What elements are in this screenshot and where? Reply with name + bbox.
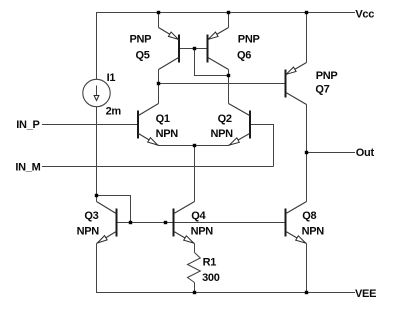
svg-text:300: 300	[202, 272, 220, 284]
svg-text:IN_M: IN_M	[15, 161, 40, 173]
svg-text:PNP: PNP	[316, 70, 338, 82]
wire Q8 emitter to VEE	[306, 244, 308, 293]
svg-text:VEE: VEE	[355, 288, 376, 300]
svg-text:Q6: Q6	[237, 50, 251, 62]
wire Q7 emitter to Vcc	[306, 13, 308, 63]
svg-text:I1: I1	[107, 72, 116, 84]
wire Q8 collector to Out	[306, 153, 308, 202]
wire I1 bottom to Q3 collector node	[96, 107, 98, 196]
resistor R1	[188, 253, 201, 283]
wire Q7 collector to Out	[306, 105, 308, 153]
wire Q6 emitter to Vcc	[228, 13, 230, 28]
svg-text:NPN: NPN	[156, 128, 179, 140]
junction Q8 emitter / VEE	[305, 291, 308, 294]
junction Out node	[305, 151, 308, 154]
svg-text:PNP: PNP	[238, 34, 260, 46]
wire Q5 collector to Q1 collector	[158, 70, 160, 104]
svg-text:Out: Out	[356, 147, 375, 159]
svg-text:NPN: NPN	[77, 226, 100, 238]
svg-text:NPN: NPN	[211, 128, 234, 140]
svg-text:PNP: PNP	[130, 34, 152, 46]
wire Q1-Q2 emitters tail	[159, 145, 229, 147]
wire Q5-Q6 base link	[179, 48, 208, 50]
svg-text:2m: 2m	[106, 106, 122, 118]
wire Vcc rail	[96, 12, 355, 14]
wire Out stub	[307, 152, 356, 154]
svg-text:Q5: Q5	[136, 50, 150, 62]
junction Q1 collector / Q7 base	[157, 82, 160, 85]
wire Q4 emitter to R1	[194, 244, 196, 253]
junction R1 / VEE	[193, 291, 196, 294]
junction Q6 emitter / Vcc	[227, 11, 230, 14]
svg-text:Q8: Q8	[302, 210, 316, 222]
wire Q3 collector stub	[96, 196, 98, 202]
wire Q6 collector to Q2 collector	[228, 70, 230, 104]
transistor Q3	[97, 202, 117, 244]
transistor Q8	[286, 202, 307, 244]
junction base rail / Q4 base	[164, 221, 167, 224]
svg-text:Q3: Q3	[84, 210, 98, 222]
transistor Q5	[159, 28, 180, 70]
transistor Q1	[138, 104, 159, 146]
wire VEE rail	[96, 292, 355, 294]
wire node to Q7 base	[159, 83, 286, 85]
svg-text:Q4: Q4	[191, 210, 206, 222]
svg-text:NPN: NPN	[191, 226, 214, 238]
wire IN_M line	[42, 166, 274, 168]
wire R1 to VEE	[194, 283, 196, 293]
wire IN_P to Q1 base	[42, 124, 138, 126]
transistor Q2	[229, 104, 251, 146]
wire tail to Q4 collector	[194, 146, 196, 202]
svg-text:IN_P: IN_P	[16, 119, 39, 131]
wire base jog to Q6 collector	[195, 49, 229, 76]
junction Q5 emitter / Vcc	[157, 11, 160, 14]
svg-text:NPN: NPN	[302, 226, 325, 238]
svg-text:R1: R1	[203, 256, 217, 268]
wire Q3 diode feed to base rail	[97, 196, 131, 223]
junction Q3 feed / base rail	[129, 221, 132, 224]
wire base rail Q3-Q4-Q8	[117, 222, 286, 224]
current source I1	[83, 79, 110, 106]
junction Q7 emitter / Vcc	[305, 11, 308, 14]
svg-text:Q7: Q7	[315, 84, 329, 96]
transistor Q6	[208, 28, 229, 70]
svg-text:Q2: Q2	[218, 113, 232, 125]
wire Q3 emitter to VEE	[96, 244, 98, 293]
junction Q6 collector / base jog	[227, 74, 230, 77]
junction tail node	[193, 144, 196, 147]
junction I1 / Q3 collector	[95, 194, 98, 197]
transistor Q4	[174, 202, 195, 244]
wire Q2 base jog	[250, 125, 274, 167]
transistor Q7	[286, 63, 307, 105]
wire left column Vcc to I1	[96, 13, 98, 80]
svg-text:Vcc: Vcc	[355, 9, 374, 21]
svg-text:Q1: Q1	[156, 113, 170, 125]
junction Q5-Q6 bases	[193, 47, 196, 50]
wire Q5 emitter to Vcc	[158, 13, 160, 28]
